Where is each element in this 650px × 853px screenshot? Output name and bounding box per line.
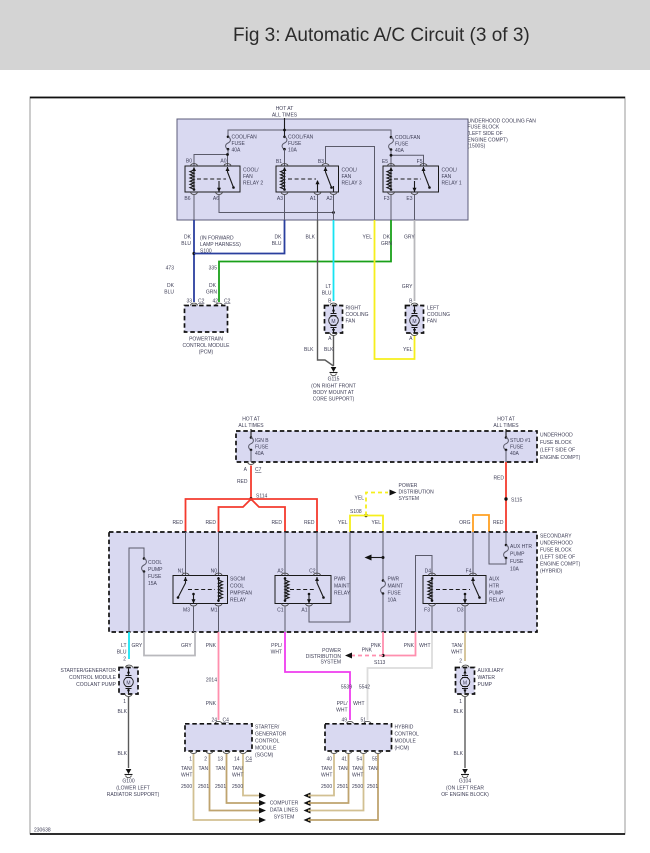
svg-text:WHT: WHT [419,643,430,649]
motor AUXILIARY WATER PUMP [456,665,505,705]
svg-text:UNDERHOOD: UNDERHOOD [540,541,573,547]
svg-text:DK: DK [184,235,192,241]
svg-text:GRY: GRY [181,643,192,649]
relay COOL/FAN RELAY 3 (top-middle) [276,159,362,202]
node S113 [381,654,384,657]
fuse IGN B FUSE 40A [249,436,270,462]
svg-text:BLK: BLK [454,751,464,757]
svg-text:(1500S): (1500S) [468,144,486,150]
svg-text:WHT: WHT [271,650,282,656]
wire TAN/WHT pin54 [308,754,364,811]
wire BLK from A1 down [318,220,334,366]
svg-text:41: 41 [341,757,347,763]
svg-text:GRY: GRY [132,643,143,649]
wire A3 riser / A1 riser / A2 riser to box bottom [285,195,334,220]
svg-text:FUSE: FUSE [255,445,269,451]
svg-text:1: 1 [189,757,192,763]
svg-text:SYSTEM: SYSTEM [274,815,295,821]
svg-text:YEL: YEL [338,520,348,526]
relay AUX HTR PUMP RELAY [423,569,506,614]
motor LEFT COOLING FAN [406,303,451,342]
svg-text:POWER: POWER [399,483,418,489]
wire D3 to box bottom [464,607,466,633]
svg-text:FUSE BLOCK: FUSE BLOCK [468,125,500,131]
off-page arrow to POWER DISTRIBUTION SYSTEM [390,490,397,496]
node S100 [192,252,195,255]
svg-text:COOL/FAN: COOL/FAN [288,135,314,141]
switch blade (left) [184,577,188,581]
svg-text:2500: 2500 [232,784,243,790]
svg-text:RADIATOR SUPPORT): RADIATOR SUPPORT) [107,792,160,798]
svg-text:AUX: AUX [489,577,500,583]
svg-text:PNK: PNK [371,643,382,649]
svg-text:M1: M1 [211,608,218,614]
module HCM [325,718,419,763]
wire RED S114 branches [186,499,252,532]
svg-text:WHT: WHT [353,701,364,707]
fuse COOL/FAN FUSE 40A (left) [226,135,258,154]
svg-text:F3: F3 [424,608,430,614]
svg-text:TAN/: TAN/ [352,766,364,772]
svg-text:POWERTRAIN: POWERTRAIN [189,337,223,343]
switch blade (right) [471,577,475,581]
svg-text:5539: 5539 [341,685,352,691]
wire GRY U-loop (fuse to M3) [144,632,195,656]
svg-text:40A: 40A [255,451,265,457]
svg-text:PNK: PNK [206,643,217,649]
svg-text:ALL TIMES: ALL TIMES [238,423,264,429]
svg-text:SGCM: SGCM [230,577,245,583]
svg-text:M: M [463,681,467,687]
svg-text:COMPUTER: COMPUTER [270,801,299,807]
wire hot feed right [505,429,507,437]
svg-text:C4: C4 [246,757,253,763]
svg-text:TAN: TAN [338,766,348,772]
wire PPL/WHT C1 to HCM 49 [285,632,350,720]
wire: hot feed into box [284,118,286,136]
node S108 and yellow feeds [338,493,388,533]
svg-text:(LEFT SIDE OF: (LEFT SIDE OF [468,131,503,137]
svg-text:HOT AT: HOT AT [497,417,515,423]
ground G115 [311,367,356,403]
wire: fuse2 output to B1 [284,149,286,166]
switch blade [422,167,426,171]
svg-text:2: 2 [459,659,462,665]
motor STARTER/GENERATOR CONTROL MODULE COOLANT PUMP [61,665,138,705]
wire F3 / E3 risers [391,195,415,220]
arrows from HCM side (right set) [304,793,311,824]
svg-text:PPL/: PPL/ [337,701,348,707]
svg-text:A1: A1 [310,196,316,202]
node S115 [504,497,507,500]
svg-text:335: 335 [209,266,218,272]
svg-text:10A: 10A [288,148,298,154]
svg-text:A1: A1 [301,608,307,614]
svg-text:(PCM): (PCM) [199,350,214,356]
svg-text:COOLING: COOLING [427,312,450,318]
svg-text:F3: F3 [384,196,390,202]
svg-text:G104: G104 [459,779,471,785]
wire RED from STUD#1 through S115 into box [505,462,507,532]
svg-text:PUMP: PUMP [489,591,504,597]
svg-text:FAN: FAN [342,174,352,180]
svg-text:C2: C2 [224,299,231,305]
svg-text:STUD #1: STUD #1 [510,438,531,444]
svg-text:(LOWER LEFT: (LOWER LEFT [116,786,150,792]
svg-text:DK: DK [275,235,283,241]
svg-text:PMP/FAN: PMP/FAN [230,591,252,597]
svg-text:G115: G115 [328,377,340,383]
svg-text:DISTRIBUTION: DISTRIBUTION [399,490,435,496]
svg-text:RED: RED [304,520,315,526]
svg-text:BLK: BLK [118,709,128,715]
svg-text:2500: 2500 [181,784,192,790]
svg-text:FAN: FAN [427,319,437,325]
arrows into computer data lines (left set) [259,793,266,824]
pin A / C7 [248,462,255,464]
svg-text:40: 40 [326,757,332,763]
svg-text:HOT AT: HOT AT [242,417,260,423]
svg-text:S113: S113 [374,660,386,666]
svg-text:M: M [331,319,335,325]
svg-text:HOT AT: HOT AT [276,106,294,112]
svg-text:BLK: BLK [118,751,128,757]
ground G104 [441,769,489,798]
svg-text:RED: RED [172,520,183,526]
svg-text:PNK: PNK [206,701,217,707]
wire BLK aux pump to ground [464,697,466,768]
diagram sheet frame [30,97,625,834]
svg-text:PNK: PNK [362,648,373,654]
svg-text:13: 13 [217,757,223,763]
svg-text:CONTROL: CONTROL [255,739,280,745]
wire M3 to box bottom [193,607,195,633]
wire TAN/WHT D3 to aux water pump [464,632,466,661]
svg-text:WHT: WHT [181,773,192,779]
svg-text:CONTROL: CONTROL [395,732,420,738]
wire F3 to box bottom [431,607,433,633]
svg-text:BLK: BLK [306,235,316,241]
svg-text:RELAY 2: RELAY 2 [243,181,263,187]
wire feeds into PWR MAINT relay [285,532,317,576]
svg-text:GRN: GRN [381,241,393,247]
svg-text:PWR: PWR [334,577,346,583]
wire A1 loop up to yellow feed [309,532,350,622]
svg-text:10A: 10A [388,598,398,604]
wire GRY from E3 to left fan B [414,220,416,301]
svg-text:MAINT: MAINT [334,584,350,590]
svg-text:COOL: COOL [230,584,244,590]
wire B3 up-over-down (yellow feed) [326,147,375,221]
svg-text:10A: 10A [510,567,520,573]
svg-text:2500: 2500 [321,784,332,790]
svg-text:LAMP HARNESS): LAMP HARNESS) [200,242,241,248]
relay COOL/FAN RELAY 2 (U-top-left) [184,159,263,203]
fuse STUD #1 FUSE 40A [504,436,531,462]
svg-text:A3: A3 [277,196,283,202]
wire PNK fuse output to S113 [382,632,384,656]
svg-text:FUSE BLOCK: FUSE BLOCK [540,548,572,554]
svg-text:PPL/: PPL/ [271,643,282,649]
svg-text:2501: 2501 [337,784,348,790]
svg-text:C7: C7 [255,467,262,473]
svg-text:(ON RIGHT FRONT: (ON RIGHT FRONT [311,384,356,390]
svg-text:STARTER/: STARTER/ [255,725,280,731]
wire TAN pin13 [227,754,261,803]
svg-text:OF ENGINE BLOCK): OF ENGINE BLOCK) [441,792,489,798]
svg-text:2501: 2501 [198,784,209,790]
wire TAN/WHT pin1 to data lines [194,754,261,820]
module PCM [182,299,230,356]
fuse COOL/FAN FUSE 10A (middle) [282,135,314,154]
svg-text:WHT: WHT [336,708,347,714]
underhood fuse block (dashed) [236,431,537,462]
svg-text:MODULE: MODULE [395,739,417,745]
svg-text:IGN B: IGN B [255,438,269,444]
svg-text:LEFT: LEFT [427,306,439,312]
svg-text:14: 14 [234,757,240,763]
wire TAN pin41 [308,754,349,803]
relay SGCM COOL PMP/FAN RELAY [173,569,252,614]
svg-text:RED: RED [237,479,248,485]
svg-text:54: 54 [356,757,362,763]
svg-text:YEL: YEL [355,496,365,502]
svg-text:BLK: BLK [304,347,314,353]
coil (right) [218,577,220,602]
svg-text:TAN: TAN [216,766,226,772]
switch blade [226,167,230,171]
svg-text:24: 24 [211,718,217,724]
svg-text:ENGINE COMPT): ENGINE COMPT) [468,137,509,143]
wire A6 over to A2 riser [219,195,334,213]
wire TAN pin2 [210,754,261,811]
svg-text:COOL/: COOL/ [243,168,259,174]
relay PWR MAINT RELAY [275,569,351,614]
svg-text:BLU: BLU [117,650,127,656]
wire DK BLU from B6 to S100 and PCM 33 [193,220,195,302]
svg-text:FAN: FAN [442,174,452,180]
wire feeds into SGCM relay [186,532,219,576]
svg-text:COOLANT PUMP: COOLANT PUMP [76,682,117,688]
svg-text:TAN/: TAN/ [232,766,244,772]
svg-text:ORG: ORG [459,520,471,526]
svg-text:40A: 40A [232,148,242,154]
svg-text:STARTER/GENERATOR: STARTER/GENERATOR [61,668,117,674]
svg-text:WHT: WHT [232,773,243,779]
svg-text:RELAY: RELAY [489,598,506,604]
svg-text:BLK: BLK [324,347,334,353]
svg-text:B0: B0 [186,159,192,165]
svg-text:BLK: BLK [454,709,464,715]
header title bar [0,0,650,70]
wire BLK pump to ground [128,697,130,768]
fuse COOL/FAN FUSE 40A (right) [389,135,421,154]
wire PNK D4 loop to S113 [383,632,416,656]
svg-text:473: 473 [166,266,175,272]
svg-text:WHT: WHT [321,773,332,779]
svg-text:PUMP: PUMP [510,552,525,558]
wire TAN/WHT pin14 [243,754,261,796]
svg-text:RED: RED [493,476,504,482]
svg-text:B6: B6 [184,196,190,202]
svg-text:COOL/: COOL/ [342,168,358,174]
svg-text:WATER: WATER [478,675,496,681]
svg-text:(HYBRID): (HYBRID) [540,569,563,575]
svg-text:5542: 5542 [359,685,370,691]
svg-text:YEL: YEL [363,235,373,241]
secondary underhood fuse block (big dashed box) [109,532,537,632]
svg-text:AUXILIARY: AUXILIARY [478,668,505,674]
wire D4 feed loop (pink source) [416,556,433,633]
node S114 [249,497,252,500]
svg-text:2501: 2501 [215,784,226,790]
coil (left) [284,577,286,602]
svg-text:HYBRID: HYBRID [395,725,414,731]
svg-text:WHT: WHT [451,650,462,656]
svg-text:BLU: BLU [272,241,282,247]
svg-text:FUSE BLOCK: FUSE BLOCK [540,440,572,446]
svg-text:(IN FORWARD: (IN FORWARD [200,236,234,242]
svg-text:55: 55 [372,757,378,763]
svg-text:BLU: BLU [164,290,174,296]
svg-text:FUSE: FUSE [288,141,302,147]
svg-text:MAINT: MAINT [388,584,404,590]
svg-text:ALL TIMES: ALL TIMES [493,423,519,429]
wire RED from A/C7 to S114 [250,466,252,500]
svg-text:RELAY: RELAY [334,591,351,597]
wire BLK fan A to ground [333,336,335,367]
svg-text:TAN: TAN [199,766,209,772]
svg-text:LT: LT [121,643,126,649]
svg-text:(ON LEFT REAR: (ON LEFT REAR [446,786,484,792]
svg-text:UNDERHOOD: UNDERHOOD [540,433,573,439]
svg-text:PNK: PNK [404,643,415,649]
svg-text:2500: 2500 [352,784,363,790]
svg-text:51: 51 [360,718,366,724]
wire TAN pin55 [308,754,378,820]
svg-text:RED: RED [205,520,216,526]
svg-text:M: M [126,681,130,687]
svg-text:C2: C2 [198,299,205,305]
svg-text:2501: 2501 [367,784,378,790]
svg-text:COOL/FAN: COOL/FAN [232,135,258,141]
svg-text:TAN/: TAN/ [451,643,463,649]
svg-text:M: M [412,319,416,325]
svg-text:RELAY 3: RELAY 3 [342,181,362,187]
svg-text:E3: E3 [406,196,412,202]
svg-text:HTR: HTR [489,584,500,590]
svg-text:TAN: TAN [368,766,378,772]
svg-text:COOL/FAN: COOL/FAN [395,135,421,141]
svg-text:2: 2 [204,757,207,763]
fuse PWR MAINT FUSE 10A [381,577,403,633]
wire DK BLU branch from A3 [194,220,285,254]
svg-text:BODY MOUNT AT: BODY MOUNT AT [313,390,354,396]
wire PNK M1 to SGCM 24 [218,632,220,720]
svg-text:(SGCM): (SGCM) [255,753,274,759]
svg-text:COOL: COOL [148,560,162,566]
svg-text:C4: C4 [223,718,230,724]
svg-text:PUMP: PUMP [478,682,493,688]
wire ORG feed to F4 [472,532,474,576]
svg-text:Fig 3: Automatic A/C Circuit (: Fig 3: Automatic A/C Circuit (3 of 3) [233,25,530,46]
svg-text:UNDERHOOD COOLING FAN: UNDERHOOD COOLING FAN [468,118,537,124]
svg-text:2014: 2014 [206,678,217,684]
wire: fuse3 output to E5 and F5 [391,150,424,166]
svg-text:FAN: FAN [243,174,253,180]
svg-text:ENGINE COMPT): ENGINE COMPT) [540,455,581,461]
svg-text:ENGINE COMPT): ENGINE COMPT) [540,562,581,568]
svg-text:COOL/: COOL/ [442,168,458,174]
svg-text:SYSTEM: SYSTEM [320,660,341,666]
svg-text:DATA LINES: DATA LINES [270,808,299,814]
svg-text:RED: RED [271,520,282,526]
svg-text:GRY: GRY [404,235,415,241]
svg-text:DK: DK [167,283,175,289]
svg-text:PWR: PWR [388,577,400,583]
svg-text:GRN: GRN [206,290,218,296]
dashed actuate line [197,178,226,180]
svg-text:S108: S108 [350,509,362,515]
svg-text:1: 1 [459,699,462,705]
svg-text:(HCM): (HCM) [395,746,410,752]
wire LT BLU to coolant pump [128,632,130,659]
svg-text:1: 1 [123,699,126,705]
svg-text:SECONDARY: SECONDARY [540,534,572,540]
svg-text:RELAY 1: RELAY 1 [442,181,462,187]
fuse COOL PUMP FUSE 15A with loop [129,548,163,632]
svg-text:TAN/: TAN/ [321,766,333,772]
ground G100 [107,769,160,798]
svg-text:YEL: YEL [403,347,413,353]
coil (left) [431,577,433,602]
relay COOL/FAN RELAY 1 (top-right) [382,159,462,202]
wire DK GRN from F3 to PCM 42 [219,220,391,302]
svg-text:15A: 15A [148,581,158,587]
svg-text:TAN/: TAN/ [181,766,193,772]
svg-text:RED: RED [493,520,504,526]
motor RIGHT COOLING FAN [325,303,369,342]
wire WHT F3 to HCM 51 [368,632,433,720]
svg-text:CORE SUPPORT): CORE SUPPORT) [313,397,355,403]
svg-text:BLU: BLU [322,291,332,297]
svg-text:40A: 40A [510,451,520,457]
switch blade [324,167,328,171]
svg-text:M3: M3 [183,608,190,614]
wire: fuse1 output to B0 and A0 [194,149,228,166]
svg-text:AUX HTR: AUX HTR [510,544,532,550]
switch blade (right) [315,577,319,581]
svg-text:230638: 230638 [34,828,51,834]
wire hot feed left [250,429,252,437]
svg-text:G100: G100 [122,779,134,785]
svg-text:FUSE: FUSE [395,142,409,148]
svg-text:E5: E5 [382,159,388,165]
svg-text:ALL TIMES: ALL TIMES [272,113,298,119]
svg-text:MODULE: MODULE [255,746,277,752]
svg-text:PUMP: PUMP [148,567,163,573]
svg-text:COOLING: COOLING [346,312,369,318]
svg-text:WHT: WHT [352,773,363,779]
svg-text:2: 2 [123,657,126,663]
svg-text:(LEFT SIDE OF: (LEFT SIDE OF [540,448,575,454]
svg-text:GENERATOR: GENERATOR [255,732,287,738]
svg-text:DK: DK [383,235,391,241]
svg-text:CONTROL MODULE: CONTROL MODULE [69,675,117,681]
wire ORG hat (aux fuse output to F4) [473,515,489,532]
wire TAN/WHT pin40 [308,754,334,796]
wire M1 to box bottom [218,607,220,633]
